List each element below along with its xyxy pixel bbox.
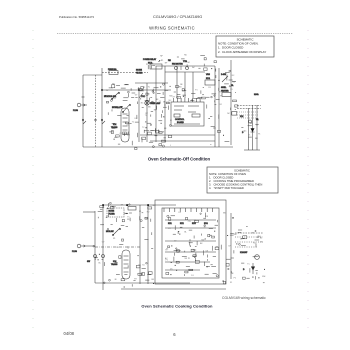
svg-text:CGLMV169 wiring schematic: CGLMV169 wiring schematic (222, 296, 266, 300)
HV bottom rail (244, 149, 260, 151)
svg-text:C1: C1 (194, 220, 196, 222)
svg-text:RY1: RY1 (168, 223, 172, 225)
svg-text:CGLMV169G / CPLMZ169G: CGLMV169G / CPLMZ169G (153, 14, 202, 19)
schematic notes box (cooking condition) (207, 167, 278, 193)
control board box (171, 102, 204, 126)
svg-text:P1: P1 (188, 258, 190, 260)
svg-text:P1: P1 (243, 131, 245, 133)
upper schematic wiring detail cluster: mid band (105, 83, 173, 104)
svg-text:R1: R1 (208, 87, 210, 89)
bottom rail y141 (150, 140, 215, 142)
svg-text:R1: R1 (113, 238, 115, 240)
svg-text:C1: C1 (159, 101, 161, 103)
wire: top feed horizontal (83, 74, 102, 76)
svg-text:S1: S1 (116, 247, 118, 249)
svg-text:POWER RELAY: POWER RELAY (143, 58, 157, 61)
svg-text:P1: P1 (234, 278, 236, 280)
upper schematic wiring detail cluster: left lower (108, 106, 139, 149)
wire: line L1 vertical (82, 75, 84, 147)
HV section dashed rows (237, 105, 261, 107)
lower schematic wiring detail cluster: left column (93, 225, 142, 288)
wire: dashed noise filter row (102, 72, 148, 74)
power cord plug (77, 244, 81, 248)
fuse (128, 207, 136, 211)
svg-text:2. COOKING TIME PROGRAMMED: 2. COOKING TIME PROGRAMMED (209, 179, 254, 183)
svg-text:Oven Schematic Cooking Conditi: Oven Schematic Cooking Condition (141, 304, 213, 309)
svg-text:4. “START” PAD TOUCHED: 4. “START” PAD TOUCHED (209, 186, 244, 190)
svg-text:BL: BL (184, 232, 186, 234)
inner board box (162, 208, 219, 278)
svg-text:H.V.: H.V. (113, 124, 117, 126)
HV section dotted rows (237, 111, 259, 113)
svg-text:PLUG: PLUG (73, 110, 78, 112)
interlock monitor switch (112, 92, 119, 99)
wire vertical x95 (94, 211, 96, 283)
svg-text:CONTROL: CONTROL (175, 119, 184, 121)
svg-text:1. DOOR CLOSED: 1. DOOR CLOSED (209, 175, 233, 179)
svg-text:P1: P1 (220, 96, 222, 98)
svg-text:Oven Schematic-Off Condition: Oven Schematic-Off Condition (148, 157, 211, 162)
svg-text:P1: P1 (252, 268, 254, 270)
HV diode (251, 128, 255, 132)
svg-text:R1: R1 (253, 242, 255, 244)
primary interlock switch (123, 104, 130, 112)
interlock switch circles (94, 255, 97, 258)
svg-text:S1: S1 (230, 89, 232, 91)
svg-text:FM: FM (168, 60, 171, 62)
HV cap circle (249, 120, 252, 123)
stub to left (83, 211, 95, 213)
magnetron filament (256, 124, 259, 125)
upper schematic wiring detail cluster: top row (146, 54, 217, 70)
HV terminal rect (232, 112, 237, 116)
junction dots (102, 204, 104, 206)
lower schematic wiring detail cluster: board right margin (221, 213, 237, 284)
svg-text:WIRING SCHEMATIC: WIRING SCHEMATIC (149, 26, 195, 31)
right margin dotted guide (307, 30, 309, 332)
thermal cutout switch (139, 93, 143, 98)
bottom rail y135 (140, 134, 215, 136)
svg-text:MAG.: MAG. (254, 93, 259, 96)
bottom rail y289 (121, 288, 226, 290)
wire vertical x147 (146, 83, 148, 142)
lower schematic wiring detail cluster: board interior (165, 212, 219, 277)
right verticals x215 x219 (214, 66, 216, 147)
svg-text:RY-1: RY-1 (206, 78, 210, 80)
svg-text:SW: SW (232, 82, 235, 84)
wire: horizontal bus y90 (102, 89, 171, 91)
board content rows (165, 219, 216, 221)
svg-text:NOISE: NOISE (109, 211, 115, 213)
lower schematic wiring detail cluster: HV right section (236, 227, 266, 283)
svg-text:SW: SW (87, 261, 90, 263)
board pin stubs (173, 98, 175, 102)
svg-text:P1: P1 (146, 64, 148, 66)
svg-text:SCHEMATIC: SCHEMATIC (234, 168, 250, 172)
dash-dot link line (95, 246, 140, 248)
upper schematic wiring detail cluster: board top pins (172, 84, 205, 101)
small circle comp (255, 255, 260, 260)
svg-text:F1: F1 (163, 116, 165, 118)
svg-text:FILTER: FILTER (136, 73, 143, 75)
board internal marks (174, 105, 184, 107)
upper schematic wiring detail cluster: right column (206, 69, 238, 110)
svg-text:3. CHOOSE (COOKING CONTROL): 3. CHOOSE (COOKING CONTROL) THEN (209, 182, 262, 186)
svg-text:NOTE: CONDITION OF OVEN: NOTE: CONDITION OF OVEN (209, 172, 246, 176)
junction dots top bus (101, 89, 103, 91)
svg-text:2. CLOCK APPEARED ON DISPLAY: 2. CLOCK APPEARED ON DISPLAY (218, 50, 266, 54)
HV transformer capsule (122, 250, 130, 279)
svg-text:D1: D1 (176, 97, 178, 99)
board pin stubs top (163, 208, 165, 212)
schematic notes box (off condition) (216, 36, 274, 57)
svg-text:P1: P1 (139, 265, 141, 267)
power cord plug (77, 103, 81, 107)
svg-text:C1: C1 (119, 133, 121, 135)
monitor switch diagonal (113, 228, 120, 235)
wire vertical x165 (164, 66, 166, 142)
wire: ground vertical (101, 68, 103, 147)
svg-text:MON.SW: MON.SW (106, 231, 114, 233)
svg-text:D1: D1 (226, 75, 228, 77)
right vertical (230, 213, 232, 279)
svg-text:F1: F1 (230, 282, 232, 284)
svg-text:F1: F1 (139, 211, 141, 213)
upper schematic wiring detail cluster: magnetron area (241, 123, 262, 138)
bottom rail y283 (95, 282, 190, 284)
noise filter dashed box (107, 208, 124, 217)
svg-text:F1: F1 (258, 134, 260, 136)
header divider dashed rule (57, 33, 293, 35)
svg-text:R1: R1 (197, 98, 199, 100)
turntable motor (186, 67, 189, 70)
svg-text:D1: D1 (191, 275, 193, 277)
top rail y205 (103, 204, 176, 206)
lower schematic wiring detail cluster: top left (98, 202, 156, 222)
svg-text:GRILL: GRILL (221, 87, 226, 89)
svg-text:D1: D1 (179, 212, 181, 214)
board feeder wires (176, 66, 178, 98)
svg-text:RY2: RY2 (180, 223, 184, 225)
upper schematic wiring detail cluster: right lower (209, 113, 231, 145)
svg-text:RY3: RY3 (192, 223, 196, 225)
HV cap verticals (248, 108, 250, 150)
hatch rows right (235, 232, 263, 234)
upper schematic wiring detail cluster: center lower (142, 97, 172, 148)
svg-text:Publication No. 5995511473: Publication No. 5995511473 (59, 15, 94, 19)
svg-text:R1: R1 (161, 60, 163, 62)
wire vertical x139 (138, 90, 140, 142)
svg-text:T1: T1 (240, 239, 242, 241)
svg-text:SW: SW (201, 239, 204, 241)
wire vertical x103 (102, 205, 104, 290)
HV transformer capsule (121, 108, 129, 142)
fuse F1 (109, 71, 118, 75)
svg-text:F1: F1 (195, 89, 197, 91)
svg-text:BL: BL (99, 262, 101, 264)
svg-text:S1: S1 (142, 264, 144, 266)
svg-text:HEATER: HEATER (221, 90, 229, 93)
wire vertical x156 (155, 66, 157, 142)
svg-text:T1: T1 (248, 134, 250, 136)
left margin dotted guide (32, 30, 34, 332)
svg-text:FILTER: FILTER (109, 214, 116, 216)
wire verticals mid (139, 205, 141, 284)
svg-text:FAN MOTOR: FAN MOTOR (172, 63, 183, 66)
HV diode (251, 267, 255, 271)
svg-text:PLUG: PLUG (72, 251, 77, 253)
right vertical x231 (230, 60, 232, 145)
svg-text:NOISE: NOISE (136, 70, 143, 72)
svg-text:FIL: FIL (256, 119, 259, 121)
svg-text:04/08: 04/08 (64, 331, 75, 336)
bottom rail y147 (83, 146, 233, 148)
svg-text:P1: P1 (166, 259, 168, 261)
svg-text:TRANS: TRANS (111, 263, 118, 266)
svg-text:T1: T1 (165, 250, 167, 252)
wire: neutral vertical dotted (95, 75, 97, 147)
svg-text:H.V.: H.V. (240, 116, 244, 118)
interlock contacts on supply lines (82, 119, 84, 121)
wire horizontals top right (156, 65, 215, 67)
outer board box (155, 200, 226, 284)
wire horizontal y83 (135, 82, 168, 84)
svg-text:BOARD: BOARD (177, 121, 184, 124)
svg-text:FUSE 20A: FUSE 20A (108, 68, 117, 71)
svg-text:SW: SW (234, 234, 237, 236)
lower schematic wiring detail cluster: mid column (141, 217, 155, 284)
lamp symbol (145, 101, 149, 105)
